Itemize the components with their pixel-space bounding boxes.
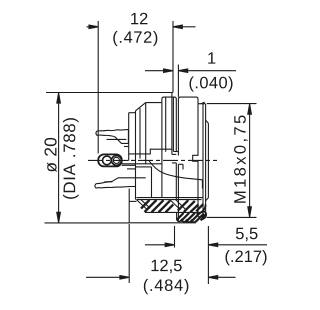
text 12	[131, 13, 147, 25]
dimension 5,5 and 12,5 extension line right	[207, 226, 209, 284]
insulator chamfer vertical a	[139, 108, 141, 158]
barrel bottom edge	[198, 216, 206, 218]
dimension 12 extension line left	[97, 21, 99, 154]
dimension 12,5 arrow right	[218, 276, 236, 278]
shell right edge with mid notch	[193, 104, 198, 217]
hatch flange slab left group	[141, 200, 173, 212]
top lug inner line	[107, 138, 127, 140]
flange bottom edge	[129, 222, 196, 224]
text dia 20 rotated	[44, 138, 56, 172]
dimension 1 arrow right and leader	[188, 70, 237, 72]
dimension 12,5 arrow left	[86, 276, 121, 278]
dia 20 dimension line	[58, 93, 60, 223]
thread section tip	[202, 211, 206, 220]
front protrusion chamfer bottom	[206, 198, 209, 201]
thread section dense hatch	[177, 213, 205, 223]
cavity lower taper end	[201, 180, 203, 189]
insulator left edge	[135, 111, 137, 200]
insulator top edge	[146, 102, 162, 104]
dimension 1 arrow left	[145, 70, 164, 72]
text (.484)	[144, 279, 189, 294]
keyway slot tick upper	[172, 153, 176, 155]
section zone top double line	[136, 197, 202, 199]
cavity cone edge	[149, 160, 203, 179]
front protrusion chamfer top	[206, 120, 209, 123]
white chamfer gap boundary 1	[170, 200, 181, 210]
dimension 12 arrow right	[182, 26, 196, 28]
barrel thread runout bottom	[199, 214, 205, 217]
lower block tick	[127, 168, 136, 170]
dimension 12 extension line right	[172, 21, 174, 93]
rear block vertical	[128, 113, 130, 161]
cavity lower contour	[136, 166, 152, 168]
dia 20 extension line bottom	[45, 222, 130, 224]
bottom lug support vertical	[128, 189, 130, 202]
thread section block left edge	[176, 212, 178, 219]
flange rear face lower	[161, 103, 163, 198]
top solder lug	[96, 130, 128, 144]
M18 dimension line	[249, 104, 251, 218]
contact circle left	[103, 156, 112, 165]
centerline	[88, 159, 217, 161]
contact tail line	[122, 163, 162, 165]
thread scallops	[177, 219, 196, 222]
dimension 5,5 extension line left	[174, 226, 176, 248]
keyway jog upper	[173, 151, 178, 153]
front protrusion face	[207, 123, 209, 198]
shell bottom right corner	[196, 205, 205, 214]
dimension 12 arrow left	[87, 26, 90, 28]
contact circle right outer	[112, 156, 122, 166]
M18 extension line bottom	[207, 216, 257, 218]
barrel thread runout top	[199, 102, 205, 105]
flange disc outline	[162, 97, 176, 152]
keyway lower vertical	[182, 164, 184, 169]
barrel inner vertical	[202, 104, 204, 217]
section chamfer diagonal 1	[136, 200, 146, 209]
flange front lower edge	[175, 163, 177, 200]
text (.217)	[225, 250, 266, 265]
bottom left corner tick	[129, 200, 136, 202]
text M18x0,75 rotated	[234, 115, 248, 202]
bottom solder lug	[95, 178, 146, 188]
text (.472)	[113, 31, 157, 46]
dimension 5,5 arrow right and leader	[218, 244, 268, 246]
shell left edge lower	[177, 164, 179, 222]
contact circle right inner	[113, 157, 119, 163]
shell outline	[178, 97, 198, 155]
section slab bottom line	[145, 211, 203, 213]
rear block ledge	[129, 112, 136, 114]
dimension 12,5 extension line left	[128, 224, 130, 283]
text 1	[208, 52, 215, 63]
dia 20 extension line top	[46, 92, 173, 94]
text 12,5	[152, 260, 182, 274]
flange inner vertical	[165, 97, 167, 152]
dimension 1 extension line right	[177, 65, 179, 97]
keyway jog lower	[178, 163, 183, 165]
flange front face line	[171, 93, 173, 155]
flange front face line b	[172, 97, 174, 151]
cavity upper contour step	[129, 149, 172, 154]
text 5,5	[236, 228, 258, 241]
text (DIA .788) rotated	[63, 118, 79, 199]
keyway slot tick lower	[172, 162, 176, 164]
bottom left corner vertical	[128, 201, 130, 222]
lower block top line	[122, 164, 136, 166]
barrel front face	[205, 104, 207, 217]
white chamfer gap boundary 2	[176, 200, 186, 210]
dimension 5,5 arrow left	[145, 244, 166, 246]
insert rear vertical lower	[151, 167, 153, 198]
tick below top lug	[124, 146, 128, 148]
section chamfer diagonal 2	[141, 200, 150, 209]
solder contact capsule	[98, 154, 122, 166]
barrel top edge	[198, 103, 206, 105]
text (.040)	[189, 76, 232, 91]
insulator chamfer vertical b	[145, 103, 147, 164]
hatch flange slab right group	[178, 200, 204, 212]
M18 extension line top	[207, 103, 257, 105]
insulator chamfer	[136, 103, 146, 111]
bottom lug inner line	[105, 181, 113, 183]
